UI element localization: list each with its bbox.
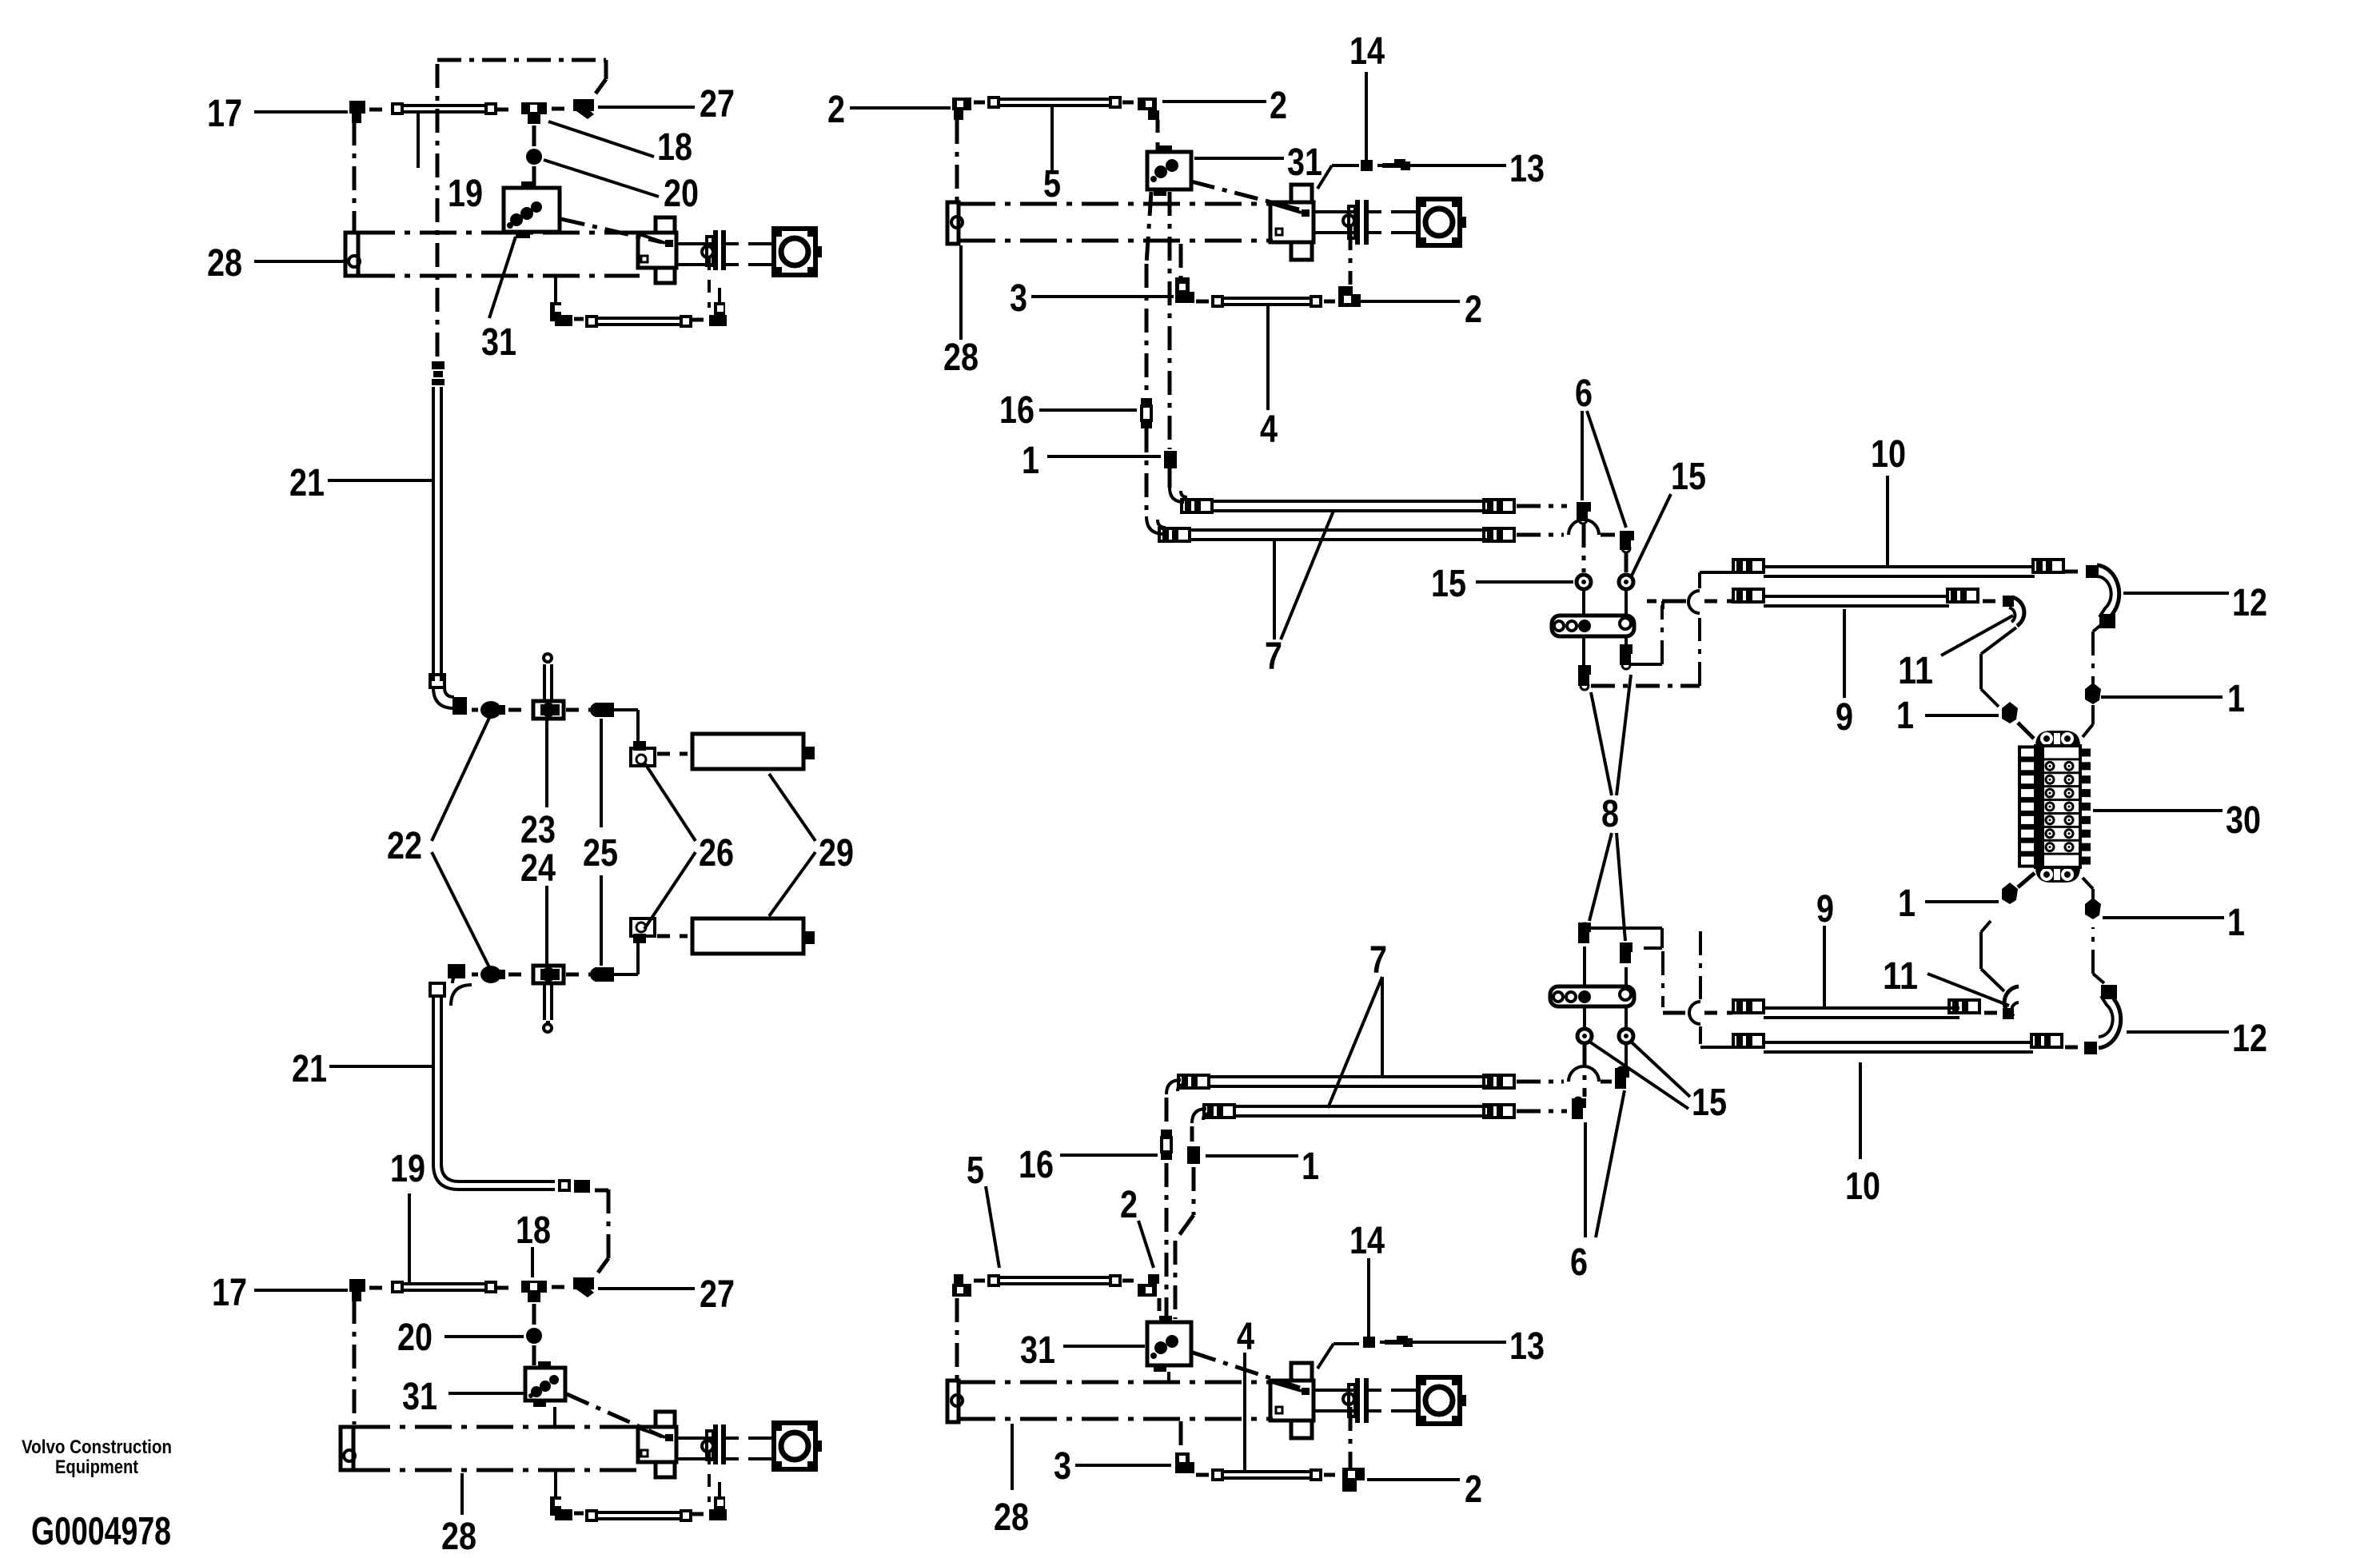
rod gland top-left [707,230,726,270]
dash-dot hose-21 to 27 routing bottom-left [595,1189,608,1273]
tee block 23/24 lower [533,966,564,983]
leader 5 bottom [986,1186,999,1268]
elbow right link (bottom) [1631,928,1662,948]
svg-text:19: 19 [390,1148,425,1190]
clamp bracket (top) [1552,616,1634,636]
dash [1122,1279,1134,1283]
svg-text:8: 8 [1601,793,1619,835]
label 6 (top) [1575,373,1593,415]
elbow drain right top-left [709,302,727,326]
dash-dot riser 17 to cylinder [353,122,357,232]
elbow left link (bottom) [1591,926,1636,930]
column lines below bracket (top) [1584,636,1626,665]
hose 12 curved (top) [2086,565,2119,624]
dash-dot port to elbow 2 [1349,226,1353,285]
dash-dot hose7 upper to elbow (bottom) with jump arc [1517,1066,1612,1082]
dash-dot riser to fitting 3 [1179,244,1183,277]
svg-text:31: 31 [1287,141,1322,184]
dash-dot port to elbow 2 bottom [1349,1407,1353,1468]
svg-text:1: 1 [1022,440,1039,482]
label 17 (bottom-left) [212,1272,247,1314]
label 28 (bottom-center) [994,1496,1029,1539]
svg-text:14: 14 [1349,1220,1385,1262]
svg-text:1: 1 [2227,902,2245,944]
hose 7 upper right fitting (top) [1484,500,1514,512]
hose 7 lower right fitting (top) [1484,528,1514,541]
grease fitting 15 right (top) [1619,575,1633,589]
elbow fitting 2 bottom-center right [1138,1274,1159,1297]
dash-dot riser 2 to cylinder cap bottom [955,1298,959,1379]
leader 27 [598,106,695,109]
leader 28 top-center [959,245,963,340]
label 4 (top-center) [1260,408,1278,451]
hose 21 upper end elbow fitting [452,697,467,715]
tube 19 (top-left) [391,102,497,115]
label 11 (top) [1898,650,1933,692]
port ring bottom-left [702,1440,713,1452]
dash [2065,570,2081,574]
hose 21 lower end cap [430,983,445,996]
label 1 (bottom) [1302,1146,1319,1188]
dash [1196,1473,1209,1477]
svg-text:11: 11 [1883,955,1918,998]
accumulator elbow 26 upper [631,741,655,766]
elbow fitting 2 top-center left [952,98,971,120]
dash [1984,1011,1999,1015]
crosshead bottom-center [1270,1363,1314,1438]
leader 2 lower bottom [1367,1478,1460,1481]
fitting 25 upper [590,703,614,717]
svg-text:2: 2 [1465,1468,1482,1511]
connector block 31 bottom-left [525,1361,565,1407]
figure number G0004978 [31,1510,171,1553]
svg-text:10: 10 [1845,1166,1880,1208]
label 19 (bottom-left) [390,1148,425,1190]
elbow fitting 2 bottom-center left [952,1274,971,1297]
port ring top-left [702,246,713,257]
dash riser 2 to block 31 [1156,120,1160,150]
rod lines bottom-center [1314,1390,1355,1411]
dash-dot fitting1 to block 30 (bottom) [2018,873,2035,887]
svg-text:4: 4 [1260,408,1278,451]
dash [657,934,688,938]
label 21 (lower) [292,1048,327,1090]
dash [1377,164,1382,167]
label 27 (bottom-left) [700,1273,735,1316]
label 16 (bottom) [1019,1144,1054,1186]
elbow fitting 17 bottom-left [349,1279,365,1301]
label 5 (top-center) [1043,163,1061,205]
label 2 (top-center lower) [1465,289,1482,331]
leader 1 right (bottom) [2103,916,2224,919]
leader 16 [1039,408,1137,412]
label 3 (top-center) [1010,277,1027,320]
label 9 (top) [1836,696,1853,739]
leaders 29 [769,774,815,916]
column lines into bracket (top) [1584,589,1626,614]
dash-dot 20 to block 31 [532,166,536,186]
leader 31 bottom [448,1392,524,1395]
hose 12 end elbow (bottom) [2101,985,2117,999]
dash-dot vertical centerline x547 [436,64,440,365]
drain tube top-left [585,315,692,328]
dash [508,708,528,712]
svg-text:15: 15 [1692,1082,1727,1124]
svg-text:9: 9 [1816,888,1834,930]
svg-text:6: 6 [1575,373,1593,415]
dash [574,317,584,321]
svg-text:13: 13 [1509,1325,1545,1368]
route hose10 riser (bottom) [1699,931,1702,999]
dash [1324,300,1335,304]
leader 20 bottom [445,1335,524,1338]
svg-text:22: 22 [387,825,422,867]
svg-text:31: 31 [1020,1329,1055,1372]
line fitting 1 to block 30 right (top) [2083,705,2093,737]
cylinder barrel cap top-center [947,202,963,244]
cylinder body outline bottom-left [353,1427,640,1470]
label 25 [583,832,618,875]
dash [552,107,569,111]
hose 9 end elbow 11 (bottom) [2003,986,2019,1019]
hose 7 upper elbow end (top) [1170,488,1212,512]
label 3 (bottom-center) [1054,1445,1071,1488]
leader 23/24 [545,719,548,964]
rod to eye bottom-left [726,1438,772,1459]
svg-text:6: 6 [1570,1241,1588,1284]
leader 18 [548,122,654,157]
label 15 right (top) [1671,456,1706,498]
fitting 1 right (bottom) [2085,898,2101,919]
label 2 (bottom-center left) [1120,1184,1138,1226]
svg-text:15: 15 [1431,563,1466,605]
leader 1 (bottom) [1206,1154,1298,1158]
hose 7 upper (bottom) [1209,1077,1487,1086]
leaders 6 (bottom) [1585,1090,1625,1237]
fitting 1 left (top) [2002,702,2018,723]
elbow fitting 2 lower top-center [1338,286,1361,307]
hose 7 lower elbow end (top) [1146,516,1190,541]
hose 21 upper elbow bend [433,687,454,708]
crosshead bottom-left [638,1412,676,1477]
label 15 left (top) [1431,563,1466,605]
hose 10 (top) [1733,560,2035,576]
leader 4 bottom [1243,1353,1246,1471]
svg-text:27: 27 [700,1273,735,1316]
column right upper (top) [1625,552,1629,572]
label 26 [699,832,734,875]
svg-text:18: 18 [516,1209,551,1252]
leader 12 (top) [2123,592,2229,595]
leaders 22 [432,718,489,967]
fitting 27 bottom-left [573,1277,594,1297]
svg-text:27: 27 [700,83,735,126]
dash [472,708,478,712]
hose 7 upper elbow end (bottom) [1166,1075,1209,1094]
svg-text:2: 2 [1270,85,1287,127]
leader 5 [1050,107,1054,171]
leader 14 [1365,72,1368,160]
route hose9 horizontal (top) [1647,600,1692,604]
label 31 (bottom-left) [402,1376,437,1418]
rod eye fitting bottom-left [774,1423,822,1469]
label 18 (bottom-left) [516,1209,551,1252]
tube 4 (top-center) [1211,295,1322,308]
column lines into bracket (bottom) [1585,946,1626,985]
link line to accumulator elbow upper [614,710,638,741]
svg-text:29: 29 [819,832,854,875]
label 9 (bottom) [1816,888,1834,930]
svg-text:5: 5 [1043,163,1061,205]
leader 15 left (top) [1476,580,1573,584]
dash-dot 18 to 20 [532,126,536,146]
drain riser left bottom-left [554,1470,557,1496]
hose 10 right fitting (bottom) [2031,1034,2062,1047]
leader 10 (top) [1886,476,1889,566]
svg-text:17: 17 [212,1272,247,1314]
hose 21 lower [433,996,441,1164]
dash-dot hose7 lower to elbow (bottom) [1517,1110,1567,1114]
label 1 left (top) [1896,695,1914,737]
elbow fitting 3 bottom-center [1175,1452,1194,1473]
link line 14 to crosshead bottom [1318,1344,1359,1369]
leader 2 lower [1361,300,1460,303]
label 20 (top-left) [664,173,699,215]
pin 23/24 lower (points down) [544,983,552,1032]
dash [657,752,688,756]
grease fitting 15 right (bottom) [1619,1029,1633,1043]
label 15 (bottom) [1692,1082,1727,1124]
leader 28 [254,260,345,263]
grease fitting 15 left (top) [1577,575,1591,589]
hose 9 (top) [1733,589,1949,606]
dash-dot 20 to block 31 bottom [532,1345,536,1365]
svg-text:19: 19 [448,173,483,215]
leader 25 [600,719,603,966]
hose 21 lower elbow bend [451,974,472,1006]
dash [369,108,385,112]
fitting 1 right (top) [2085,683,2101,704]
rod gland top-center [1349,200,1369,245]
union fitting 22 upper [480,701,505,719]
route hose9 corner (top) [1661,601,1664,609]
label 12 (top) [2232,582,2267,624]
routing hose12 to fitting 1 right (top) [2093,624,2103,686]
svg-text:10: 10 [1871,433,1906,476]
dash-dot 18 to 20 bottom [532,1304,536,1325]
hose 21 upper end cap [430,675,445,687]
elbow above bracket right (bottom) [1620,942,1633,963]
leader 2 [850,106,951,110]
leader 19 bottom [408,1193,411,1283]
plug fitting 13 bottom-center [1385,1336,1413,1347]
label 23 [520,809,556,851]
elbow below bracket left (top) [1578,665,1591,690]
leader 1 left (top) [1925,714,1999,717]
dash [691,1512,707,1516]
elbow 6 upper-right (top) [1620,531,1634,552]
tee block 23/24 upper [533,701,564,719]
dash-dot fitting 1 to block bottom [1175,1167,1194,1319]
hose 21 upper top fitting stack [432,361,445,385]
hose 10 right fitting (top) [2033,560,2063,572]
svg-text:16: 16 [999,389,1035,432]
svg-text:2: 2 [1465,289,1482,331]
fitting 14 top-center [1361,160,1373,171]
tee fitting 18 top-left [521,102,547,124]
manifold block 30 [2019,731,2091,883]
leader 31 [489,237,516,318]
leader 16 (bottom) [1060,1154,1158,1157]
label 5 (bottom-center) [967,1150,984,1192]
dash [1196,300,1209,304]
label 10 (top) [1871,433,1906,476]
hose 9 right fitting (bottom) [1949,1000,1979,1013]
elbow fitting 17 top-left [349,101,365,123]
leader 13 [1410,164,1506,167]
port ring top-center [1343,215,1354,226]
dash [566,973,590,977]
label 11 (bottom) [1883,955,1918,998]
elbow fitting 3 top-center [1175,277,1194,303]
riser to rod eye bottom-left [718,1482,721,1496]
tee fitting 18 bottom-left [521,1281,547,1302]
link line 14 to crosshead [1318,165,1359,189]
riser to rod eye [718,288,721,302]
svg-text:13: 13 [1509,148,1545,190]
dash [1122,101,1134,105]
label 31 (top-center) [1287,141,1322,184]
elbow 6 left (bottom) [1572,1098,1586,1119]
svg-text:21: 21 [289,462,325,504]
svg-text:7: 7 [1369,939,1387,982]
accumulator upper [692,734,815,769]
label 31 (top-left) [481,321,516,364]
dash [472,973,478,977]
dash-dot 1 to hose elbow [1168,468,1172,488]
hose 9 end elbow 11 (top) [2003,596,2024,626]
accumulator elbow 26 lower [631,918,655,943]
inline fitting 16 top-center [1141,398,1152,428]
leader 18 bottom [531,1247,534,1277]
elbow fitting 2 lower bottom-center [1342,1468,1365,1492]
drain riser right bottom-left [708,1452,711,1502]
svg-text:15: 15 [1671,456,1706,498]
dash-dot riser to fitting 3 bottom [1179,1421,1183,1452]
dash [369,1286,385,1290]
label 1 left (bottom) [1898,883,1916,925]
elbow drain left top-left [550,302,572,326]
leaders 8 [1589,675,1631,941]
cylinder barrel cap bottom-left [341,1427,355,1470]
svg-text:Equipment: Equipment [55,1456,138,1478]
drain riser left top-left [554,276,557,302]
label 28 (bottom-left) [441,1516,476,1558]
svg-text:11: 11 [1898,650,1933,692]
route hose10 riser with jump arc (top) [1688,572,1700,686]
hose 7 upper right fitting (bottom) [1484,1075,1514,1088]
columns below 15 (bottom) [1585,1043,1626,1097]
cylinder body outline bottom-center [959,1382,1273,1419]
hose 7 upper (top) [1212,501,1487,511]
hose 7 lower (top) [1190,530,1487,540]
route hose9 (bottom) [1663,951,1685,1013]
inline fitting 16 (bottom) [1161,1130,1172,1160]
label 13 (top-center) [1509,148,1545,190]
dash [496,108,516,112]
label 2 (top-center right) [1270,85,1287,127]
leader 14 bottom [1367,1258,1370,1337]
svg-text:20: 20 [664,173,699,215]
accumulator lower [692,918,815,954]
dash-dot 16 to hose elbow [1145,428,1149,516]
svg-text:25: 25 [583,832,618,875]
union fitting 22 lower [480,966,505,983]
tube 5 (top-center) [987,96,1122,109]
connector block 31 bottom-center [1147,1316,1191,1372]
hose 12 end elbow (top) [2099,614,2115,628]
svg-text:1: 1 [1898,883,1916,925]
label 28 (top-center) [943,337,979,379]
label 31 (bottom-center) [1020,1329,1055,1372]
elbow 6 upper-left (top) [1577,502,1591,524]
label 22 [387,825,422,867]
route corner (bottom) [1644,946,1662,950]
leader 3 bottom [1075,1464,1171,1467]
dash [496,1286,516,1290]
label 18 (top-left) [657,126,692,169]
routing hose9 elbow to fitting 1 (top) [1981,628,2016,707]
dash [552,1285,569,1289]
svg-text:1: 1 [1302,1146,1319,1188]
label 21 (upper) [289,462,325,504]
dash-dot block 31 to crosshead top-center [1191,181,1299,209]
dash [508,973,528,977]
rod gland bottom-center [1349,1378,1369,1423]
svg-text:28: 28 [943,337,979,379]
link hose9 (bottom) [1704,1011,1732,1015]
leader 11 (bottom) [1928,974,2009,1006]
cylinder body dash-dot outline top-left [358,233,640,276]
svg-text:30: 30 [2226,799,2261,842]
tube 4 (bottom-center) [1211,1468,1322,1481]
leaders 15 (bottom) [1589,1042,1690,1109]
leader 3 [1031,295,1174,298]
dash-dot block to fitting 1 [1168,192,1172,449]
svg-text:21: 21 [292,1048,327,1090]
rod gland bottom-left [707,1425,726,1464]
svg-text:17: 17 [207,93,242,135]
leader 2 right [1162,100,1266,103]
rod lines bottom-left [676,1438,713,1459]
connector block 31 top-left [504,181,560,238]
dash-dot hose-27 routing frame top-left [437,60,606,94]
hose 7 lower right fitting (bottom) [1484,1105,1514,1118]
cylinder barrel cap bottom-center [947,1381,963,1422]
fitting 1 top-center [1164,451,1177,468]
block 31 to cylinder link bottom-center [1167,1372,1170,1381]
svg-text:5: 5 [967,1150,984,1192]
fitting 20 bottom-left [526,1328,542,1344]
label 1 (top-center) [1022,440,1039,482]
label 2 (top-center left) [827,89,845,131]
dash-dot hose7 upper to elbow 6 [1517,504,1567,508]
drain riser right top-left [708,257,711,308]
svg-text:14: 14 [1349,30,1385,73]
label 4 (bottom-center) [1237,1316,1254,1358]
label 2 (bottom-center lower) [1465,1468,1482,1511]
svg-text:1: 1 [1896,695,1914,737]
